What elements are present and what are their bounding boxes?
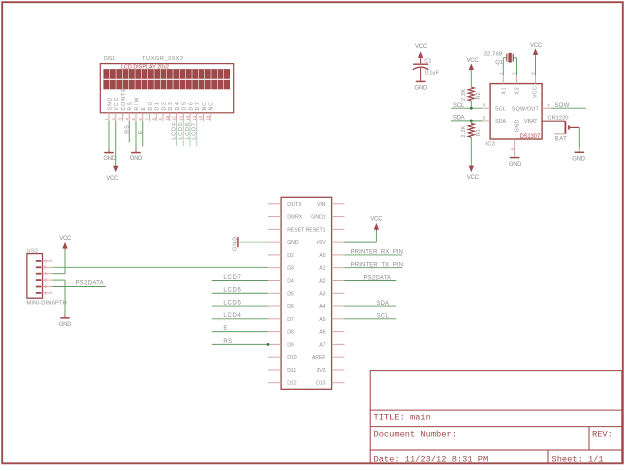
svg-text:D0: D0	[148, 102, 154, 111]
wire VCC pin8	[535, 55, 537, 75]
svg-text:CONTR: CONTR	[121, 88, 127, 111]
ground below battery	[572, 152, 585, 162]
wire LCD pin14 net LCD7	[196, 121, 198, 146]
svg-text:SDA: SDA	[376, 301, 389, 307]
svg-text:2: 2	[111, 118, 116, 121]
svg-text:Date: 11/23/12 8:31 PM: Date: 11/23/12 8:31 PM	[374, 454, 489, 464]
wire D4 net LCD7	[212, 279, 268, 281]
svg-text:D4: D4	[175, 102, 181, 111]
svg-text:D3: D3	[287, 266, 294, 272]
svg-text:2: 2	[512, 72, 517, 75]
svg-text:E: E	[141, 106, 147, 110]
LCD pin names and pin numbers 1-16	[104, 88, 215, 121]
net label LCD7	[223, 275, 241, 281]
ground under LCD pin5	[130, 153, 143, 162]
IC3 DS1307	[482, 72, 551, 148]
svg-text:D12: D12	[287, 381, 297, 387]
svg-text:2.2K: 2.2K	[461, 89, 467, 101]
svg-text:DS1307: DS1307	[520, 133, 541, 140]
svg-text:LCD4: LCD4	[171, 122, 177, 139]
junction SDA/R1	[470, 120, 473, 123]
svg-text:3V3: 3V3	[316, 368, 325, 374]
svg-text:D6: D6	[188, 102, 194, 111]
svg-text:D2: D2	[161, 102, 167, 111]
svg-text:RS: RS	[124, 124, 130, 134]
date text	[374, 454, 489, 464]
svg-text:14: 14	[192, 115, 197, 120]
svg-text:GND: GND	[514, 119, 520, 132]
svg-text:VCC: VCC	[530, 43, 543, 49]
svg-text:VCC: VCC	[370, 217, 383, 223]
svg-text:PS2DATA: PS2DATA	[364, 275, 392, 281]
svg-text:VCC: VCC	[467, 175, 480, 181]
supply VCC below LCD (arrow down)	[106, 166, 119, 182]
svg-text:GND: GND	[572, 157, 585, 163]
svg-text:X1: X1	[501, 87, 507, 95]
svg-text:7: 7	[547, 103, 550, 108]
svg-text:11: 11	[172, 115, 177, 120]
svg-text:15: 15	[199, 115, 204, 120]
svg-text:E: E	[138, 130, 144, 135]
svg-text:SQW/OUT: SQW/OUT	[512, 107, 540, 113]
net label SCL	[376, 314, 389, 320]
svg-text:RS: RS	[223, 339, 232, 345]
svg-text:SCL: SCL	[495, 107, 506, 113]
svg-text:D1/TX: D1/TX	[287, 202, 302, 208]
svg-text:GND: GND	[59, 322, 72, 328]
svg-text:A7: A7	[319, 342, 325, 348]
title block	[370, 371, 622, 464]
supply VCC above DS1307	[530, 43, 543, 55]
svg-text:SQW: SQW	[554, 103, 569, 109]
battery BAT CR1220	[542, 116, 579, 143]
wire D6 net LCD5	[212, 305, 268, 307]
svg-text:4: 4	[124, 118, 129, 121]
svg-text:D10: D10	[287, 355, 297, 361]
supply VCC below R1 (arrow down)	[467, 165, 480, 181]
wire LCD pin6 net E	[142, 121, 144, 146]
wire LCD pin12 net LCD5	[182, 121, 184, 146]
net label LCD5	[178, 122, 184, 139]
svg-text:VCC: VCC	[114, 97, 120, 110]
svg-text:GND: GND	[103, 156, 116, 162]
svg-text:32.768: 32.768	[484, 52, 503, 58]
wire LCD pin13 net LCD6	[189, 121, 191, 146]
supply VCC above C1	[415, 44, 428, 63]
net label SDA	[376, 301, 389, 307]
svg-text:IC3: IC3	[485, 142, 495, 148]
sheet text	[552, 454, 604, 464]
svg-text:16: 16	[205, 115, 210, 120]
svg-text:GND: GND	[287, 240, 299, 246]
svg-text:RESET: RESET	[287, 227, 305, 233]
wire +5V to VCC	[345, 231, 377, 242]
svg-text:D11: D11	[287, 368, 296, 374]
svg-text:REV:: REV:	[592, 429, 613, 439]
net label PRINTER_RX_PIN	[351, 250, 403, 256]
wire US2 pin3 to GND	[53, 280, 65, 318]
wire A0 net PRINTER_RX_PIN	[345, 254, 403, 256]
wire net SQW	[551, 107, 586, 109]
wire SDA to R1	[470, 121, 472, 123]
wire X2	[516, 58, 518, 76]
svg-text:AREF: AREF	[312, 355, 326, 361]
svg-text:PRINTER_RX_PIN: PRINTER_RX_PIN	[351, 250, 403, 256]
svg-text:A2: A2	[319, 278, 325, 284]
svg-text:R2: R2	[476, 92, 482, 99]
Arduino pin header block	[268, 197, 345, 389]
svg-text:GND: GND	[107, 97, 113, 110]
svg-text:Q1: Q1	[495, 60, 503, 66]
net label PS2DATA	[76, 281, 104, 287]
svg-text:D9: D9	[287, 342, 294, 348]
svg-text:VCC: VCC	[533, 86, 539, 98]
net label PS2DATA	[364, 275, 392, 281]
svg-text:D5: D5	[287, 291, 294, 297]
wire R1 to VCC	[470, 137, 472, 165]
svg-text:5: 5	[131, 118, 136, 121]
svg-text:LCD7: LCD7	[192, 122, 198, 139]
net label RS	[223, 339, 232, 345]
svg-text:D0/RX: D0/RX	[287, 215, 303, 221]
svg-text:NC: NC	[202, 102, 208, 111]
net label LCD4	[223, 313, 241, 319]
svg-text:BAT: BAT	[555, 137, 567, 143]
ground below US2	[59, 318, 72, 328]
svg-text:PRINTER_TX_PIN: PRINTER_TX_PIN	[351, 263, 403, 269]
svg-text:D3: D3	[168, 102, 174, 111]
svg-text:LCD5: LCD5	[223, 300, 241, 306]
ground below C1	[415, 81, 428, 91]
wire net SCL	[451, 107, 482, 109]
ground under LCD pin1	[103, 153, 116, 162]
connector US2 MINI-DIN6PTH	[26, 248, 66, 306]
svg-text:D7: D7	[195, 102, 201, 111]
svg-text:VCC: VCC	[59, 236, 72, 242]
svg-text:D2: D2	[287, 253, 294, 259]
svg-text:Document Number:: Document Number:	[374, 429, 457, 439]
svg-text:6: 6	[138, 118, 143, 121]
svg-text:2.2K: 2.2K	[461, 125, 467, 137]
svg-text:A5: A5	[319, 317, 325, 323]
resistor R2 2.2K	[461, 87, 482, 101]
wire X1	[502, 58, 504, 76]
svg-text:6: 6	[483, 103, 486, 108]
svg-text:D7: D7	[287, 317, 294, 323]
svg-text:A1: A1	[319, 266, 325, 272]
net label LCD5	[223, 300, 241, 306]
wire LCD pin11 net LCD4	[176, 121, 178, 146]
svg-text:LCD7: LCD7	[223, 275, 241, 281]
svg-text:C1: C1	[424, 59, 431, 65]
svg-text:Sheet: 1/1: Sheet: 1/1	[552, 454, 604, 464]
svg-text:E: E	[223, 326, 227, 332]
title text	[374, 412, 431, 422]
wire LCD pin1 to GND	[108, 121, 110, 152]
svg-text:VIN: VIN	[317, 202, 326, 208]
svg-text:12: 12	[178, 115, 183, 120]
junction SCL/R2	[470, 107, 473, 110]
net label LCD7	[192, 122, 198, 139]
net label LCD6	[185, 122, 191, 139]
svg-text:RS: RS	[128, 102, 134, 111]
wire R2 to SCL	[470, 101, 472, 108]
svg-text:SDA: SDA	[495, 119, 506, 125]
svg-text:TITLE: main: TITLE: main	[374, 412, 431, 422]
wire A2 net PS2DATA	[345, 279, 397, 281]
svg-text:D4: D4	[287, 278, 294, 284]
net label PRINTER_TX_PIN	[351, 263, 403, 269]
wire D7 net LCD4	[212, 318, 268, 320]
svg-text:LCD4: LCD4	[223, 313, 241, 319]
svg-text:SDA: SDA	[453, 116, 465, 122]
svg-text:10: 10	[165, 115, 170, 120]
wire net SDA	[451, 120, 482, 122]
wire VCC to R2	[470, 70, 472, 87]
net label SQW	[554, 103, 569, 109]
svg-text:VCC: VCC	[467, 58, 480, 64]
wire D9 net RS	[212, 343, 268, 345]
wire US2 pin2 net PS2DATA	[53, 286, 106, 288]
net label LCD4	[171, 122, 177, 139]
wire A1 net PRINTER_TX_PIN	[345, 267, 403, 269]
ground at Arduino GND pin	[232, 236, 268, 251]
capacitor C1 0.1uF	[413, 59, 439, 81]
wire A5 net SCL	[345, 318, 397, 320]
svg-text:GND: GND	[415, 85, 428, 91]
svg-text:GND: GND	[509, 162, 522, 168]
svg-text:7: 7	[145, 118, 150, 121]
ground below DS1307	[509, 158, 522, 168]
net label E	[223, 326, 227, 332]
svg-text:GND1: GND1	[311, 215, 325, 221]
svg-text:D5: D5	[182, 102, 188, 111]
svg-text:PS2DATA: PS2DATA	[76, 281, 104, 287]
svg-text:NC: NC	[209, 102, 215, 111]
svg-text:D13: D13	[316, 381, 326, 387]
net label RS	[124, 124, 130, 134]
svg-text:GND: GND	[130, 156, 143, 162]
wire LCD pin5 to GND	[135, 121, 137, 152]
svg-text:SCL: SCL	[376, 314, 389, 320]
svg-text:8: 8	[151, 118, 156, 121]
svg-text:MINI-DIN6PTH: MINI-DIN6PTH	[26, 301, 66, 307]
net label SDA	[453, 116, 465, 122]
crystal Q1 32.768	[484, 52, 517, 66]
svg-text:A6: A6	[319, 330, 325, 336]
svg-text:R1: R1	[476, 129, 482, 136]
wire LCD pin4 net RS	[128, 121, 130, 143]
supply VCC above R2	[467, 58, 480, 71]
svg-text:A3: A3	[319, 291, 325, 297]
wire DS1307 GND pin	[510, 139, 515, 157]
junction on RS wire	[267, 343, 270, 346]
wire US2 pin5 to D3	[53, 266, 268, 268]
svg-text:+5V: +5V	[316, 240, 326, 246]
svg-text:D6: D6	[287, 304, 294, 310]
rev text	[592, 429, 613, 439]
svg-text:R/W: R/W	[134, 97, 140, 110]
document number text	[374, 429, 457, 439]
svg-text:LCD5: LCD5	[178, 122, 184, 139]
svg-text:LCD6: LCD6	[185, 122, 191, 139]
svg-text:1: 1	[499, 72, 504, 75]
svg-text:VCC: VCC	[415, 44, 428, 50]
wire US2 pin4 to VCC	[53, 250, 65, 274]
svg-text:8: 8	[531, 72, 536, 75]
svg-text:RESET1: RESET1	[306, 227, 326, 233]
wire D8 net E	[212, 331, 268, 333]
wire A4 net SDA	[345, 305, 397, 307]
resistor R1 2.2K	[461, 123, 482, 137]
svg-text:9: 9	[158, 118, 163, 121]
svg-text:TUXGR_20X2: TUXGR_20X2	[142, 56, 183, 62]
svg-text:4: 4	[510, 148, 515, 151]
wire BAT to GND	[578, 127, 580, 152]
svg-text:SCL: SCL	[453, 103, 465, 109]
net label LCD6	[223, 288, 241, 294]
svg-text:A4: A4	[319, 304, 325, 310]
svg-text:D1: D1	[155, 102, 161, 111]
supply VCC above +5V	[370, 217, 383, 232]
svg-text:A0: A0	[319, 253, 325, 259]
supply VCC above US2	[59, 236, 72, 249]
wire LCD pin2 to VCC	[115, 121, 117, 166]
svg-text:0.1uF: 0.1uF	[425, 70, 439, 76]
net label E	[138, 130, 144, 135]
svg-text:GND: GND	[232, 236, 238, 251]
svg-text:X2: X2	[515, 87, 521, 95]
svg-text:VCC: VCC	[106, 176, 119, 182]
svg-text:DIS1: DIS1	[104, 56, 115, 62]
svg-text:3: 3	[118, 118, 123, 121]
svg-text:D8: D8	[287, 330, 294, 336]
svg-text:13: 13	[185, 115, 190, 120]
wire D5 net LCD6	[212, 292, 268, 294]
svg-text:5: 5	[483, 115, 486, 120]
LCD display DIS1 TUXGR_20X2	[100, 56, 233, 113]
svg-text:VBAT: VBAT	[524, 119, 538, 125]
svg-text:LCD6: LCD6	[223, 288, 241, 294]
svg-text:1: 1	[104, 118, 109, 121]
net label SCL	[453, 103, 465, 109]
